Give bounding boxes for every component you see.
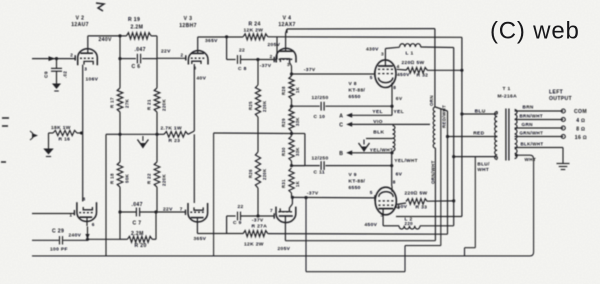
- svg-text:R 23: R 23: [169, 138, 181, 144]
- wire bus x435 top corner: [434, 29, 436, 107]
- wire V8 cathode riser: [391, 88, 393, 116]
- node V9 cathode junction: [390, 164, 393, 167]
- svg-text:220K: 220K: [162, 99, 167, 111]
- arrow B: [346, 150, 352, 155]
- svg-text:ORN/WHT: ORN/WHT: [431, 160, 436, 184]
- wire YEL row C10: [292, 105, 320, 107]
- wire C6 row: [120, 58, 136, 60]
- svg-text:ORN: ORN: [429, 95, 434, 106]
- tube V3 triode b (12BH7 lower): [188, 203, 208, 222]
- svg-text:BLU: BLU: [475, 109, 486, 115]
- svg-text:C 7: C 7: [133, 221, 142, 227]
- svg-text:WHT: WHT: [477, 167, 489, 172]
- pin 2 V3 grid tick: [185, 55, 187, 60]
- wire bus x453.7 L1 to L2: [453, 48, 455, 226]
- heater winding V8/V9: [393, 126, 395, 152]
- svg-text:450V: 450V: [365, 222, 378, 228]
- svg-text:22V: 22V: [163, 206, 173, 212]
- svg-text:VIO: VIO: [373, 119, 382, 125]
- wire R27 to vertical x447.5: [268, 233, 448, 236]
- wire RED to primary CT: [448, 136, 498, 138]
- wire nest row y245.6 bias: [405, 245, 441, 247]
- wire bias U bottom: [306, 271, 405, 273]
- node input junction: [55, 57, 58, 60]
- svg-text:C 29: C 29: [52, 228, 64, 234]
- svg-text:WHT: WHT: [525, 157, 537, 162]
- svg-text:R 27A: R 27A: [252, 223, 268, 229]
- tube V2 triode a (12AU7 upper): [78, 49, 98, 65]
- secondary tap BRN/WHT: [515, 119, 564, 121]
- svg-text:8: 8: [393, 85, 396, 90]
- transformer T1 primary winding: [495, 112, 498, 137]
- wire V2b grid from left: [32, 213, 74, 215]
- svg-text:2: 2: [181, 53, 184, 58]
- resistor R17 27K: [117, 88, 123, 112]
- svg-text:V 8: V 8: [349, 81, 357, 87]
- svg-text:7: 7: [270, 208, 273, 213]
- wire V2b bottom lead to junction: [87, 227, 89, 240]
- wire V8 screen lead: [397, 68, 406, 71]
- svg-text:18K 1W: 18K 1W: [51, 125, 71, 131]
- secondary tap BRN: [515, 110, 564, 112]
- svg-text:BLK/WHT: BLK/WHT: [521, 141, 544, 146]
- svg-text:-37V: -37V: [304, 67, 316, 73]
- svg-text:6550: 6550: [349, 185, 361, 191]
- wire R20 left to V2b cathode junction: [88, 238, 121, 240]
- node C6 left: [118, 57, 121, 60]
- svg-text:A: A: [339, 113, 343, 119]
- wire V4 cathode to junction: [289, 62, 291, 66]
- svg-text:365V: 365V: [194, 236, 207, 242]
- wire V3b plate down to 365V line: [196, 227, 198, 234]
- svg-text:450V: 450V: [395, 204, 408, 210]
- pin 5 V9 tick: [374, 195, 376, 200]
- svg-text:205V: 205V: [278, 246, 291, 252]
- secondary tap BLK/WHT to ground: [515, 147, 563, 149]
- svg-text:100 PF: 100 PF: [50, 246, 68, 252]
- transformer core: [505, 109, 507, 161]
- svg-text:BRN: BRN: [523, 105, 534, 110]
- svg-text:6550: 6550: [349, 94, 361, 100]
- ground heater CT: [363, 140, 365, 145]
- terminal COM: [561, 109, 565, 113]
- wire V4 plate riser: [285, 33, 287, 49]
- svg-text:220K: 220K: [162, 174, 167, 186]
- node BLU tap: [460, 112, 463, 115]
- svg-text:COM: COM: [574, 109, 587, 115]
- wire bus x461.9 y37 down: [461, 37, 463, 216]
- svg-text:6V: 6V: [396, 171, 403, 177]
- svg-text:40V: 40V: [197, 76, 207, 82]
- wire V9 plate riser down: [382, 212, 384, 226]
- wire NFB tap to left riser: [106, 133, 120, 135]
- pin tick V3b grid: [185, 210, 187, 215]
- wire V4b plate riser: [284, 222, 286, 240]
- tube V4 triode b (12AX7 lower): [276, 207, 296, 223]
- resistor R21 220K: [154, 88, 160, 112]
- wire V3b plate line 365V bottom: [197, 233, 243, 235]
- wire A line: [350, 114, 392, 116]
- svg-text:YEL/WHT: YEL/WHT: [394, 158, 417, 163]
- svg-text:365V: 365V: [205, 38, 218, 44]
- resistor R18 50K: [119, 134, 121, 162]
- svg-text:33K: 33K: [295, 117, 300, 126]
- svg-text:C 11: C 11: [314, 169, 325, 175]
- svg-text:220K: 220K: [262, 101, 267, 113]
- node tap A: [290, 105, 293, 108]
- pin 2 V4 tick: [273, 57, 275, 62]
- wire V2 cathode down: [82, 65, 84, 202]
- tube V3 triode a (12BH7 upper): [188, 51, 208, 65]
- wire C line VIO: [350, 123, 430, 125]
- svg-text:27K: 27K: [125, 98, 130, 108]
- svg-text:12AX7: 12AX7: [278, 22, 295, 28]
- svg-text:R29: R29: [281, 118, 286, 127]
- svg-text:R 17: R 17: [110, 97, 115, 108]
- wire 365V plate line V3a: [198, 36, 243, 38]
- svg-text:C 8: C 8: [238, 66, 247, 72]
- svg-text:4: 4: [397, 64, 400, 69]
- svg-text:3: 3: [381, 52, 384, 57]
- node C7 left: [118, 210, 121, 213]
- svg-text:220Ω 5W: 220Ω 5W: [405, 190, 428, 196]
- svg-text:240V: 240V: [99, 37, 113, 43]
- wire R16 left to ground: [49, 132, 54, 134]
- svg-text:2.2M: 2.2M: [131, 25, 144, 31]
- node y37 / C8 tap: [225, 35, 228, 38]
- cathode V2b: [83, 207, 92, 210]
- node V2b cathode junction: [86, 238, 89, 241]
- svg-text:V 2: V 2: [76, 15, 85, 21]
- svg-text:LEFT: LEFT: [549, 89, 564, 95]
- svg-text:R 20: R 20: [135, 243, 147, 249]
- wire bias U riser right: [404, 246, 406, 272]
- svg-text:-37V: -37V: [307, 191, 319, 197]
- svg-text:V 4: V 4: [283, 15, 292, 21]
- svg-text:5: 5: [370, 190, 373, 195]
- svg-text:12BH7: 12BH7: [179, 23, 197, 29]
- svg-text:.02: .02: [63, 71, 68, 78]
- svg-text:240V: 240V: [69, 233, 82, 239]
- svg-text:-37V: -37V: [252, 217, 264, 223]
- wire nest x475.3 down: [474, 157, 476, 248]
- wire grid drive to V8: [292, 73, 375, 75]
- node R21 bottom: [155, 133, 158, 136]
- svg-text:GRN/WHT: GRN/WHT: [520, 130, 544, 135]
- cathode V2a: [84, 61, 93, 64]
- svg-text:3: 3: [381, 212, 384, 217]
- wire R24 to long line B: [268, 36, 462, 39]
- wire V3 grid from C6 node: [157, 57, 186, 59]
- svg-text:1K: 1K: [295, 181, 300, 187]
- svg-text:BLU/: BLU/: [477, 162, 490, 167]
- node chain middle: [257, 117, 259, 152]
- svg-text:2: 2: [270, 54, 273, 59]
- svg-text:RED: RED: [473, 130, 484, 136]
- svg-text:12/250: 12/250: [312, 95, 329, 101]
- cathode V3a: [192, 61, 201, 64]
- svg-text:22: 22: [239, 48, 245, 54]
- svg-text:8: 8: [83, 197, 86, 202]
- arrow A: [346, 113, 352, 118]
- svg-text:OUTPUT: OUTPUT: [549, 96, 573, 102]
- wire corner down to V4 grid node: [276, 37, 278, 60]
- pin 5 V8 tick: [374, 71, 376, 76]
- wire R32 right to vertical: [427, 69, 462, 71]
- node heater bottom: [390, 151, 393, 154]
- node V4 grid junction: [256, 58, 259, 61]
- wire L2 right to x453.7 corner: [420, 225, 454, 227]
- node V4b grid junction: [256, 214, 259, 217]
- svg-text:1K: 1K: [295, 87, 300, 93]
- node R19 left: [118, 34, 121, 37]
- wire V4b cathode to junction: [289, 204, 292, 208]
- cathode V3b lead up: [194, 207, 203, 210]
- wire V2 plate to 240V node: [87, 36, 89, 46]
- wire R17 bottom: [119, 112, 121, 134]
- svg-text:.047: .047: [132, 202, 143, 208]
- secondary tap GRN: [515, 127, 564, 129]
- svg-text:L 1: L 1: [406, 50, 414, 56]
- svg-text:RED/WHT: RED/WHT: [441, 105, 446, 128]
- arrow C: [346, 122, 352, 127]
- wire ORN coil bottom down: [434, 148, 436, 241]
- wire C11 row: [292, 165, 320, 167]
- wire V9 cathode riser: [391, 153, 393, 186]
- wire grid drive to V9: [292, 196, 375, 199]
- inductor L2: [399, 226, 420, 229]
- resistor R22 220K: [156, 134, 158, 162]
- wire left node down to R17: [119, 36, 121, 88]
- tube V8 KT-88/6550: [375, 60, 396, 88]
- svg-text:220Ω 5W: 220Ω 5W: [402, 60, 425, 66]
- node R32 bus: [460, 69, 463, 72]
- wire nest jog to NFB: [464, 248, 466, 256]
- wire heater CT to ground: [366, 138, 393, 140]
- tube V4 triode a (12AX7 upper): [276, 48, 296, 62]
- svg-text:R 18: R 18: [110, 173, 115, 184]
- resistor grid chain lower: [255, 152, 260, 188]
- scan mark left edge: [1, 118, 9, 162]
- node C7 right: [154, 210, 157, 213]
- svg-text:C: C: [339, 123, 343, 129]
- wire R19 right corner down: [156, 36, 158, 88]
- secondary tap WHT to NFB: [515, 154, 518, 157]
- wire R21 bottom: [156, 112, 158, 134]
- svg-text:8 Ω: 8 Ω: [576, 126, 585, 132]
- pin 7 V4b tick: [273, 213, 275, 218]
- svg-text:M-216A: M-216A: [498, 94, 518, 100]
- resistor chain R30: [289, 136, 294, 161]
- tube V2 triode b (12AU7 lower): [77, 202, 97, 221]
- resistor grid chain upper: [255, 85, 260, 117]
- svg-text:C 6: C 6: [132, 64, 141, 70]
- node R33 bus: [452, 199, 455, 202]
- svg-text:220K: 220K: [262, 169, 267, 181]
- wire BLU to primary top: [462, 113, 497, 115]
- wire long line A from V4 plate: [287, 28, 435, 30]
- svg-text:V 9: V 9: [349, 172, 357, 178]
- svg-text:YEL/WHT: YEL/WHT: [370, 147, 393, 152]
- svg-text:KT-88/: KT-88/: [349, 179, 366, 185]
- svg-text:R28: R28: [281, 86, 286, 95]
- ground arrow below R21 junction: [142, 136, 144, 141]
- svg-text:2: 2: [70, 52, 73, 57]
- svg-text:6: 6: [92, 222, 95, 227]
- svg-text:7: 7: [180, 206, 183, 211]
- svg-text:12AU7: 12AU7: [71, 22, 89, 28]
- svg-text:R31: R31: [281, 179, 286, 188]
- svg-text:R 33: R 33: [416, 204, 428, 210]
- svg-text:YEL: YEL: [394, 109, 405, 115]
- wire down to C8: [226, 37, 228, 60]
- svg-text:C 9: C 9: [233, 220, 242, 226]
- wire V8 plate to L1: [384, 49, 386, 57]
- resistor chain R29: [289, 108, 294, 131]
- ground below C9: [52, 84, 61, 90]
- svg-text:4 Ω: 4 Ω: [576, 118, 585, 124]
- wire RED/WHT parallel: [440, 109, 442, 246]
- wire bypass parallel: [292, 133, 305, 135]
- node R17 bottom: [118, 133, 121, 136]
- wire V4b plate line to x435: [285, 240, 435, 242]
- terminal 4 ohm: [561, 118, 565, 122]
- svg-text:6V: 6V: [396, 96, 403, 102]
- node V4 cathode: [290, 72, 293, 75]
- svg-text:-37V: -37V: [260, 63, 272, 69]
- tube V9 KT-88/6550: [375, 187, 396, 215]
- svg-text:16 Ω: 16 Ω: [575, 135, 587, 141]
- svg-text:(C) web: (C) web: [490, 18, 580, 45]
- svg-text:R 19: R 19: [128, 17, 140, 23]
- svg-text:3: 3: [84, 67, 87, 72]
- ground output: [557, 163, 570, 165]
- resistor chain R25a: [291, 74, 293, 76]
- svg-text:C 10: C 10: [314, 114, 326, 120]
- secondary tap GRN/WHT: [515, 136, 564, 138]
- svg-text:B: B: [339, 151, 343, 157]
- wire RED riser x447.5: [447, 111, 449, 234]
- svg-text:12K 2W: 12K 2W: [244, 242, 264, 248]
- svg-text:106V: 106V: [86, 77, 99, 83]
- terminal 8 ohm: [561, 126, 565, 130]
- svg-text:KT-88/: KT-88/: [349, 87, 366, 93]
- wire coil top jog right: [435, 107, 447, 111]
- wire BLU/WHT to primary bottom: [454, 156, 498, 158]
- svg-text:205V: 205V: [268, 42, 281, 48]
- wire C7 right to V3b grid: [156, 211, 186, 213]
- svg-text:R 22: R 22: [147, 173, 152, 184]
- arrow at NFB junction: [85, 234, 89, 239]
- wire mid tap left: [214, 132, 292, 135]
- svg-text:430V: 430V: [366, 46, 379, 52]
- node tap B: [290, 164, 293, 167]
- wire R33 right to bus: [427, 200, 453, 202]
- terminal 16 ohm: [561, 135, 565, 139]
- svg-text:5: 5: [370, 75, 373, 80]
- capacitor C9 22pF bottom: [226, 216, 228, 234]
- wire L1 right to x453.7: [421, 46, 454, 49]
- node V4b cathode: [291, 196, 294, 199]
- node V8 cathode junction: [390, 105, 393, 108]
- wire mid tap riser down to NFB: [213, 133, 215, 256]
- capacitor C9: [56, 59, 58, 69]
- svg-text:GRN: GRN: [522, 122, 534, 127]
- svg-text:R 32: R 32: [417, 73, 429, 79]
- svg-text:.047: .047: [135, 47, 146, 53]
- pot arrow fragment at scan edge: [32, 133, 38, 138]
- resistor chain R31: [289, 168, 294, 193]
- drive winding ORN coil: [433, 107, 435, 148]
- svg-text:22V: 22V: [161, 49, 171, 55]
- svg-text:450V: 450V: [397, 72, 410, 78]
- svg-text:12/250: 12/250: [312, 155, 329, 161]
- svg-text:50K: 50K: [125, 173, 130, 183]
- wire nest row y247.7: [465, 247, 476, 249]
- wire nest V4b line corner up x434.9: [434, 240, 437, 242]
- wire V3b cathode up: [193, 134, 195, 203]
- pin 2 V2 grid tick: [74, 55, 76, 60]
- inductor L1: [400, 44, 421, 47]
- svg-text:R30: R30: [281, 147, 286, 156]
- wire V3 cathode down to R23: [193, 64, 195, 131]
- scan smudge: [96, 3, 104, 11]
- svg-text:R26: R26: [248, 169, 253, 178]
- svg-text:R 16: R 16: [59, 137, 71, 143]
- svg-text:220: 220: [405, 221, 414, 226]
- svg-text:YEL: YEL: [372, 109, 383, 115]
- wire bus bottom corner to left: [396, 216, 462, 218]
- wire V9 screen lead: [397, 203, 406, 204]
- svg-text:R 21: R 21: [147, 99, 152, 110]
- svg-text:8: 8: [393, 179, 396, 184]
- wire input to V2 grid: [32, 58, 76, 60]
- pin tick V2b grid: [73, 210, 75, 215]
- svg-text:BRN/WHT: BRN/WHT: [520, 113, 543, 118]
- wire B line YEL/WHT: [350, 152, 392, 154]
- svg-text:22: 22: [238, 204, 244, 210]
- node R16 right at cathode line: [80, 131, 83, 134]
- svg-text:R 24: R 24: [249, 22, 261, 28]
- svg-text:BLK: BLK: [373, 130, 384, 136]
- svg-text:33K: 33K: [295, 147, 300, 156]
- svg-text:V 3: V 3: [184, 16, 193, 22]
- svg-text:R25: R25: [248, 101, 253, 110]
- svg-text:T 1: T 1: [503, 86, 511, 92]
- node bias riser top: [304, 196, 307, 199]
- wire junction row to ground arrow: [120, 133, 157, 135]
- node BLU/WHT tap: [452, 155, 455, 158]
- svg-text:C9: C9: [44, 71, 50, 78]
- input arrow: [49, 56, 56, 61]
- transformer T1 secondary winding: [515, 110, 517, 159]
- ground below R16: [43, 149, 54, 155]
- wire bias U riser left: [305, 198, 307, 272]
- node RED tap: [446, 135, 449, 138]
- node tap mid: [290, 132, 293, 135]
